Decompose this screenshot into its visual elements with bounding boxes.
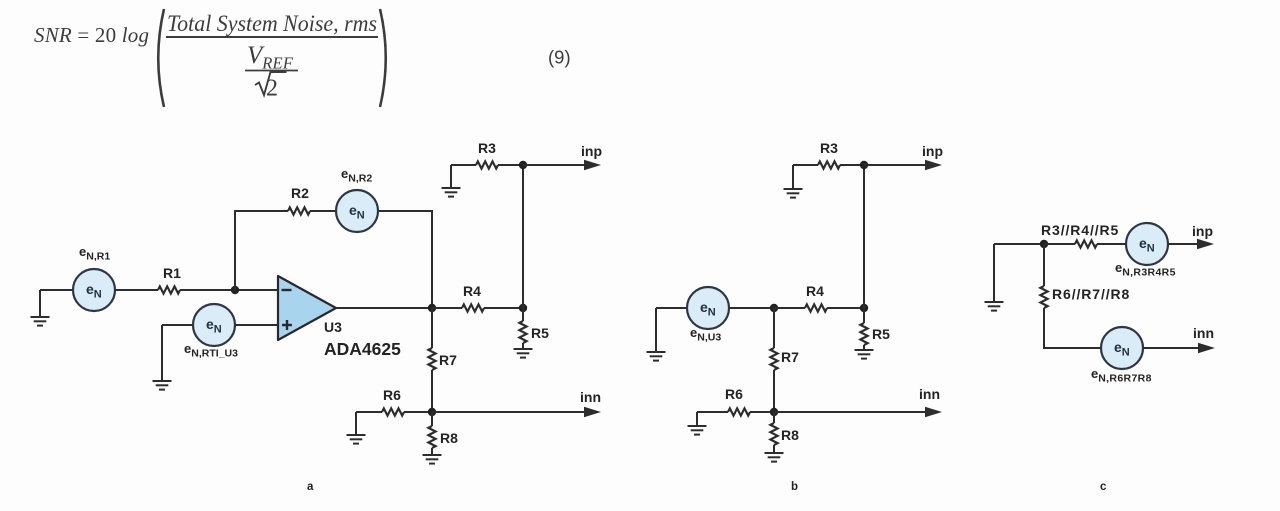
plus pin mark: [282, 324, 292, 326]
node mid junction: [770, 304, 778, 312]
ground G1 far left: [39, 290, 41, 317]
wire noise source to output column: [378, 211, 432, 308]
ground left of e_N,U3: [655, 308, 657, 352]
ground under R5: [863, 345, 865, 350]
svg-text:R7: R7: [439, 352, 457, 368]
svg-text:VREF: VREF: [247, 42, 294, 73]
resistor R3: [476, 161, 498, 168]
resistor R4: [805, 304, 827, 311]
ground left: [993, 244, 995, 302]
resistor R2: [288, 207, 310, 214]
svg-text:R4: R4: [463, 283, 481, 299]
wire R3 to junction: [840, 164, 864, 166]
wire noise source to R1: [115, 289, 158, 291]
node inp junction: [519, 161, 527, 169]
svg-text:(9): (9): [548, 47, 571, 68]
noise source e_N,R1: [73, 269, 115, 311]
node top junction: [1040, 240, 1048, 248]
fraction bar: [166, 36, 378, 38]
wire ground to noise source: [40, 289, 73, 291]
wire R1 to op-amp minus input: [180, 289, 278, 291]
svg-text:R1: R1: [163, 265, 181, 281]
resistor R6: [382, 408, 404, 415]
wire ground to RTI noise source: [162, 324, 193, 326]
node output junction: [428, 304, 436, 312]
svg-text:R6: R6: [725, 386, 743, 402]
wire output column down to R7: [431, 308, 433, 348]
minus pin mark: [282, 289, 292, 291]
wire R3 to junction: [498, 164, 523, 166]
wire output to R4: [432, 307, 462, 309]
resistor R8 vertical: [431, 412, 433, 426]
wire R6 to inn junction: [404, 411, 432, 413]
wire R7 to inn row: [773, 370, 775, 412]
node R4/R5 junction: [519, 304, 527, 312]
svg-text:R4: R4: [806, 283, 824, 299]
wire and arrow inp: [523, 164, 585, 166]
wire ground to R3: [793, 164, 818, 166]
big close paren: [380, 9, 386, 107]
resistor R8 vertical: [773, 412, 775, 423]
wire R7 to inn row: [431, 370, 433, 412]
resistor R6//R7//R8 vertical: [1040, 286, 1047, 308]
wire op-amp output: [336, 307, 432, 309]
svg-text:c: c: [1100, 481, 1107, 493]
resistor R7 vertical: [428, 348, 435, 370]
svg-text:a: a: [307, 481, 314, 493]
svg-text:eN,R2: eN,R2: [341, 166, 372, 185]
wire ground to R3: [451, 164, 476, 166]
ground G2 RTI branch: [161, 325, 163, 381]
wire down to inn row: [1044, 308, 1101, 348]
svg-text:eN,R1: eN,R1: [79, 244, 110, 263]
ground G5 bottom left: [355, 412, 357, 435]
node R4/R5 junction: [860, 304, 868, 312]
svg-text:inn: inn: [580, 389, 601, 405]
svg-text:R2: R2: [291, 185, 309, 201]
ground G6 under R8: [431, 448, 433, 455]
wire R6 to inn junction: [750, 411, 774, 413]
svg-text:R3//R4//R5: R3//R4//R5: [1041, 222, 1119, 238]
wire and arrow inn: [432, 411, 585, 413]
noise source e_N,R6R7R8: [1101, 327, 1143, 369]
svg-text:SNR = 20 log: SNR = 20 log: [34, 23, 149, 47]
resistor R6: [728, 408, 750, 415]
wire R4 to right junction: [827, 307, 864, 309]
ground bottom left: [696, 412, 698, 426]
big open paren: [158, 9, 164, 107]
svg-text:R6//R7//R8: R6//R7//R8: [1052, 286, 1130, 302]
resistor R7 vertical: [770, 348, 777, 370]
wire noise source to junction: [729, 307, 774, 309]
node inn junction: [428, 408, 436, 416]
svg-text:2: 2: [266, 76, 278, 102]
resistor R5 vertical: [863, 308, 865, 323]
wire right column up to inp row: [522, 165, 524, 308]
svg-text:R3: R3: [820, 140, 838, 156]
wire R2 to noise source: [310, 210, 336, 212]
wire junction to R4: [774, 307, 805, 309]
wire resistor to noise source: [1097, 243, 1126, 245]
wire ground to R6: [356, 411, 382, 413]
node inn junction: [770, 408, 778, 416]
wire junction down to resistor: [1043, 244, 1045, 286]
resistor R3: [818, 161, 840, 168]
ground G3 top (R3): [450, 165, 452, 188]
svg-text:inn: inn: [1193, 325, 1214, 341]
svg-text:R8: R8: [440, 430, 458, 446]
svg-text:inn: inn: [919, 386, 940, 402]
wire ground to noise source: [656, 307, 687, 309]
wire and arrow inp: [1168, 243, 1198, 245]
noise source e_N,R3R4R5: [1126, 223, 1168, 265]
svg-text:ADA4625: ADA4625: [324, 339, 401, 359]
svg-text:R8: R8: [781, 427, 799, 443]
wire right column up to inp row: [863, 165, 865, 308]
wire and arrow inn: [774, 411, 926, 413]
wire R4 to right column: [484, 307, 523, 309]
svg-text:U3: U3: [324, 319, 342, 335]
sqrt 2: [255, 72, 287, 95]
noise source e_N,U3: [687, 287, 729, 329]
noise source e_N,R2: [336, 190, 378, 232]
ground under R8: [773, 445, 775, 453]
resistor R4: [462, 304, 484, 311]
svg-text:b: b: [791, 481, 798, 493]
ground G4 under R5: [522, 343, 524, 349]
node inp junction: [860, 161, 868, 169]
svg-text:Total System Noise, rms: Total System Noise, rms: [167, 11, 377, 36]
wire and arrow inp: [864, 164, 926, 166]
svg-text:R7: R7: [781, 349, 799, 365]
resistor R1: [158, 286, 180, 293]
wire ground to junction: [994, 243, 1044, 245]
wire feedback vertical up: [235, 211, 288, 290]
svg-text:inp: inp: [581, 143, 602, 159]
op-amp U3: [278, 276, 336, 340]
svg-text:inp: inp: [1192, 223, 1213, 239]
wire ground to R6: [697, 411, 728, 413]
wire RTI source to op-amp plus input: [235, 324, 278, 326]
ground top (R3): [792, 165, 794, 189]
svg-text:R5: R5: [531, 325, 549, 341]
wire and arrow inn: [1143, 347, 1199, 349]
wire junction to resistor: [1044, 243, 1075, 245]
equation SNR formula: [34, 9, 571, 107]
node inverting input junction: [231, 286, 239, 294]
noise source e_N,RTI_U3: [193, 304, 235, 346]
resistor R5 vertical: [522, 308, 524, 321]
svg-text:inp: inp: [922, 143, 943, 159]
svg-text:R6: R6: [383, 387, 401, 403]
resistor R3//R4//R5: [1075, 240, 1097, 247]
wire mid column down to R7: [773, 308, 775, 348]
svg-text:R3: R3: [478, 140, 496, 156]
small fraction bar: [245, 70, 298, 72]
svg-text:R5: R5: [872, 326, 890, 342]
